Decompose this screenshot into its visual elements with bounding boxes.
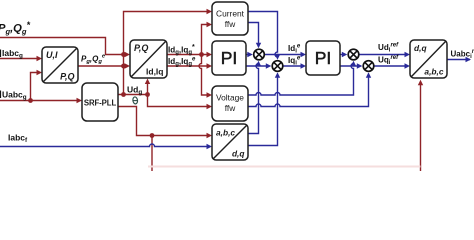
svg-text:Idie: Idie	[288, 43, 301, 54]
svg-text:Uabciref: Uabciref	[451, 49, 474, 60]
svg-text:ffw: ffw	[225, 19, 237, 29]
svg-text:d,q: d,q	[232, 149, 245, 159]
svg-text:SRF-PLL: SRF-PLL	[84, 99, 117, 108]
svg-text:P,Q: P,Q	[60, 72, 74, 82]
svg-text:Pg,Qge: Pg,Qge	[81, 54, 106, 65]
svg-text:P,Q: P,Q	[134, 43, 148, 53]
svg-text:Uqiref: Uqiref	[378, 55, 399, 66]
svg-text:U,I: U,I	[46, 50, 58, 60]
svg-text:Iabcf: Iabcf	[8, 132, 28, 144]
svg-text:Id,Iq: Id,Iq	[146, 67, 163, 77]
svg-text:PI: PI	[221, 48, 238, 68]
svg-text:Udiref: Udiref	[378, 42, 399, 53]
svg-text:Current: Current	[216, 9, 245, 19]
svg-text:Uabcg: Uabcg	[2, 89, 27, 101]
svg-text:a,b,c: a,b,c	[424, 67, 443, 77]
svg-text:Idg,Iqg*: Idg,Iqg*	[168, 44, 195, 56]
svg-text:a,b,c: a,b,c	[216, 128, 235, 138]
svg-text:Iqie: Iqie	[288, 55, 301, 66]
svg-text:ffw: ffw	[225, 103, 237, 113]
svg-text:Pg,Qg*: Pg,Qg*	[0, 20, 30, 36]
svg-text:d,q: d,q	[414, 43, 427, 53]
svg-text:Voltage: Voltage	[216, 93, 244, 103]
svg-text:PI: PI	[315, 48, 332, 68]
